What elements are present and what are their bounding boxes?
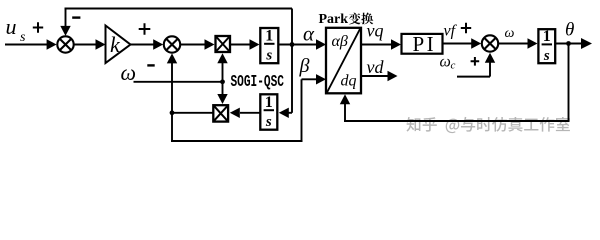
- svg-text:c: c: [451, 60, 456, 72]
- plus sign on S3 bottom input: [471, 57, 480, 66]
- svg-text:u: u: [6, 14, 17, 39]
- wire vd output: [361, 75, 388, 77]
- node A junction dot on alpha line: [290, 42, 295, 47]
- wire PI to S3 with label vf: [444, 43, 473, 45]
- wire omega-c to S3 bottom: [457, 76, 490, 78]
- node theta junction dot: [566, 41, 571, 46]
- wire M1 to integrator I1: [231, 44, 250, 46]
- minus sign on S1 top feedback: [72, 16, 80, 18]
- PI controller block: [402, 34, 443, 54]
- wire alpha feedback: top line from node A down into S1: [65, 10, 67, 28]
- svg-text:θ: θ: [565, 20, 574, 41]
- svg-text:s: s: [543, 48, 550, 64]
- Park transform block: [326, 28, 361, 94]
- summing junction S2: [164, 36, 180, 52]
- wire omega up into M1: [222, 62, 224, 82]
- wire input us to S1: [5, 44, 48, 46]
- svg-text:s: s: [265, 114, 272, 130]
- svg-text:vd: vd: [367, 57, 385, 77]
- wire S3 to integrator I3 with label omega: [499, 43, 528, 45]
- wire omega line: [134, 81, 223, 83]
- svg-text:Park: Park: [319, 12, 349, 27]
- wire theta output: [556, 43, 583, 45]
- wire theta feedback to Park dq: [568, 44, 570, 122]
- svg-text:SOGI-QSC: SOGI-QSC: [231, 72, 285, 91]
- wire beta feedback loop to Park input: [171, 113, 173, 140]
- integrator I1 (1/s): [260, 28, 278, 63]
- wire omega down into M2: [222, 82, 224, 96]
- svg-text:k: k: [110, 32, 121, 57]
- svg-text:1: 1: [543, 28, 551, 45]
- svg-text:vq: vq: [367, 21, 384, 41]
- multiplier M2: [213, 105, 228, 121]
- integrator I2 (1/s): [260, 94, 277, 129]
- svg-text:PI: PI: [413, 32, 437, 56]
- svg-text:ω: ω: [505, 26, 515, 41]
- wire gain k to S2: [131, 44, 155, 46]
- node junction dot on omega line: [220, 79, 225, 84]
- gain block k (triangle): [106, 26, 131, 64]
- wire I2 to M2: [240, 112, 260, 114]
- svg-text:1: 1: [265, 94, 273, 111]
- multiplier M1: [216, 36, 231, 52]
- plus sign on S3 left input: [461, 23, 471, 33]
- plus sign at summing junction S2: [139, 23, 151, 35]
- node alpha output wire: [279, 44, 316, 46]
- watermark zhihu: [406, 117, 420, 132]
- svg-text:ω: ω: [440, 54, 451, 71]
- svg-text:αβ: αβ: [332, 33, 348, 50]
- wire vq output Park to PI: [361, 44, 392, 46]
- svg-text:1: 1: [265, 28, 273, 45]
- wire M2 output to S2 minus input: [172, 112, 213, 114]
- minus sign on S2 bottom input: [147, 64, 154, 66]
- summing junction S1: [57, 36, 73, 52]
- summing junction S3: [482, 35, 498, 51]
- wire S1 to gain k: [74, 44, 96, 46]
- svg-text:β: β: [299, 55, 310, 77]
- svg-text:s: s: [20, 30, 26, 45]
- svg-text:s: s: [265, 48, 272, 64]
- svg-text:dq: dq: [341, 73, 357, 90]
- svg-text:α: α: [303, 22, 315, 46]
- integrator I3 (1/s): [538, 29, 555, 63]
- plus sign at summing junction S1: [33, 22, 43, 32]
- wire S2 to multiplier M1: [181, 44, 205, 46]
